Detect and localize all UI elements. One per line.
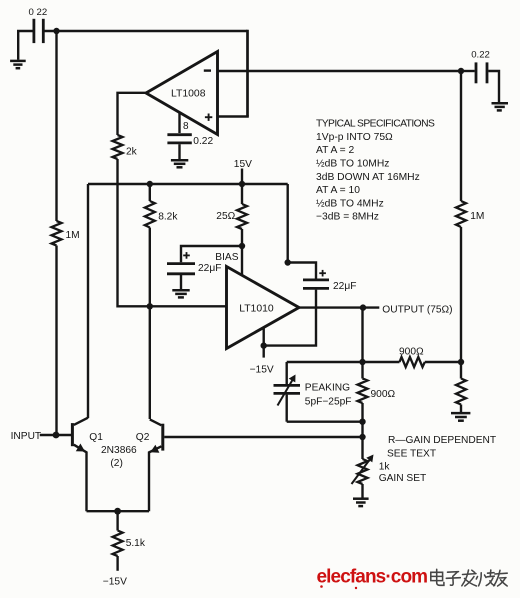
node junction dot box top — [359, 359, 365, 365]
svg-text:0.22: 0.22 — [193, 136, 213, 147]
svg-text:900Ω: 900Ω — [399, 346, 424, 357]
svg-text:5pF−25pF: 5pF−25pF — [305, 396, 352, 407]
ground G2 — [492, 103, 509, 110]
svg-text:8.2k: 8.2k — [158, 211, 178, 222]
node junction dot Q2 base wire — [359, 434, 365, 440]
watermark chinese çµå­åç§å — [431, 569, 507, 586]
R-GAIN note — [387, 435, 496, 460]
capacitor C6 peaking 5pF-25pF variable — [274, 375, 352, 408]
peaking box top wire — [287, 361, 363, 363]
buffer U2 LT1010 — [227, 267, 300, 349]
wire top feedback: node A to +input loop — [45, 30, 248, 32]
svg-text:R—GAIN DEPENDENT: R—GAIN DEPENDENT — [388, 435, 496, 446]
resistor R 2k — [113, 135, 138, 159]
wire right rail upper — [460, 71, 462, 201]
transistor Q1 2N3866 — [72, 418, 103, 512]
resistor R gain-dependent right — [456, 379, 466, 405]
svg-text:−15V: −15V — [250, 364, 274, 375]
svg-text:BIAS: BIAS — [215, 252, 238, 263]
ground G4 — [171, 160, 188, 167]
node junction dot emitters — [114, 508, 121, 515]
svg-text:−15V: −15V — [103, 576, 127, 587]
resistor R 900 horizontal — [363, 346, 462, 367]
resistor 1M right — [456, 201, 484, 227]
wire 15V rail — [88, 183, 288, 185]
svg-text:0 22: 0 22 — [29, 7, 48, 18]
capacitor C3 0.22 comp — [167, 135, 213, 160]
node junction dot input — [53, 432, 60, 439]
ground G1 — [10, 61, 26, 68]
wire C5 bottom to V- node — [264, 290, 316, 346]
node junction dot U2 input node — [147, 303, 153, 309]
wire Q2 base to gain node — [164, 436, 362, 438]
svg-text:22μF: 22μF — [333, 281, 356, 292]
svg-text:25Ω: 25Ω — [216, 211, 235, 222]
svg-text:1M: 1M — [66, 230, 80, 241]
wire output rail mid — [361, 403, 363, 459]
watermark elecfans.com — [317, 567, 428, 590]
resistor R 8.2k — [145, 184, 179, 228]
svg-text:3dB DOWN AT 16MHz: 3dB DOWN AT 16MHz — [316, 172, 420, 183]
svg-text:LT1010: LT1010 — [239, 304, 274, 315]
resistor 1M left — [52, 221, 80, 246]
wire rail right corner down to U2 V+ — [287, 184, 289, 263]
wire feedback vertical — [246, 30, 249, 117]
svg-text:22μF: 22μF — [198, 263, 221, 274]
svg-text:½dB TO 10MHz: ½dB TO 10MHz — [316, 159, 389, 170]
svg-text:½dB TO 4MHz: ½dB TO 4MHz — [316, 198, 384, 209]
supply 15V label and stub — [234, 159, 252, 184]
INPUT label and wire — [11, 431, 72, 442]
node junction dot box bottom — [359, 419, 365, 425]
spec text block — [316, 119, 435, 223]
svg-text:Q2: Q2 — [136, 432, 150, 443]
svg-text:AT A = 2: AT A = 2 — [316, 145, 355, 156]
wire 2k down to U2 input — [118, 159, 228, 306]
svg-text:0.22: 0.22 — [471, 49, 490, 60]
svg-text:AT A = 10: AT A = 10 — [316, 185, 360, 196]
node junction dot right rail — [458, 359, 464, 365]
ground G5 — [172, 290, 189, 297]
wire Q1 collector vertical — [87, 184, 89, 418]
wire U2 output — [299, 306, 379, 308]
svg-text:2N3866: 2N3866 — [101, 445, 137, 456]
svg-text:(2): (2) — [110, 458, 122, 469]
node junction dot V- — [261, 342, 267, 348]
wire + input — [217, 115, 249, 117]
wire output rail down — [361, 308, 363, 379]
svg-text:TYPICAL SPECIFICATIONS: TYPICAL SPECIFICATIONS — [316, 119, 435, 130]
node junction dot 8.2k top — [147, 181, 153, 187]
peaking box bottom wire — [287, 421, 363, 423]
wire left input rail upper — [55, 31, 57, 221]
op-amp U1 LT1008 — [146, 52, 218, 135]
wire C1 left to ground — [18, 31, 32, 60]
capacitor C2 0.22 top-right — [461, 49, 499, 102]
svg-text:900Ω: 900Ω — [371, 389, 396, 400]
wire left input rail lower — [55, 246, 57, 436]
wire V- stub — [263, 328, 265, 358]
capacitor C5 22uF output — [303, 270, 356, 292]
svg-text:2k: 2k — [126, 147, 138, 158]
wire to ground G3 — [460, 405, 462, 413]
svg-text:LT1008: LT1008 — [171, 89, 206, 100]
wire BIAS to C4 — [181, 246, 242, 262]
wire emitter rail — [87, 510, 150, 512]
resistor R 5.1k — [113, 511, 146, 571]
node junction dot U2 V+ — [285, 259, 291, 265]
svg-text:elecfans·com: elecfans·com — [317, 567, 428, 588]
svg-text:15V: 15V — [234, 159, 252, 170]
node A junction dot — [53, 28, 59, 34]
wire 8.2k bottom / Q2 collector chain — [149, 228, 151, 420]
ground G3 — [451, 413, 470, 421]
svg-text:Q1: Q1 — [89, 432, 103, 443]
svg-text:INPUT: INPUT — [11, 431, 42, 442]
svg-text:1Vp-p INTO 75Ω: 1Vp-p INTO 75Ω — [316, 132, 393, 143]
node junction dot output — [360, 304, 366, 310]
node BIAS junction dot — [239, 243, 245, 249]
wire 1k to ground — [361, 484, 363, 498]
labels 2N3866 (2) — [101, 445, 137, 469]
svg-text:1M: 1M — [470, 211, 484, 222]
capacitor C4 22uF — [167, 252, 221, 289]
wire U1 output to 2k — [118, 93, 147, 135]
svg-text:5.1k: 5.1k — [126, 538, 146, 549]
svg-text:OUTPUT (75Ω): OUTPUT (75Ω) — [382, 305, 452, 316]
potentiometer R 1k GAIN SET — [352, 455, 427, 485]
svg-text:GAIN SET: GAIN SET — [379, 473, 427, 484]
node junction dot 25ohm top — [239, 181, 245, 187]
svg-text:PEAKING: PEAKING — [305, 383, 350, 394]
pin 8 stub U1 — [180, 113, 190, 134]
peaking box left wire upper — [286, 362, 288, 384]
resistor R 900 vertical — [358, 379, 396, 404]
wire V+ node to C5 — [288, 263, 316, 279]
wire - input long (to right 0.22 node) — [218, 70, 462, 72]
transistor Q2 2N3866 — [136, 419, 163, 511]
svg-text:1k: 1k — [379, 461, 391, 472]
svg-text:8: 8 — [183, 121, 189, 132]
node B junction dot top-right — [458, 68, 464, 74]
ground G6 — [353, 499, 369, 506]
svg-text:SEE TEXT: SEE TEXT — [387, 449, 436, 460]
svg-text:−3dB = 8MHz: −3dB = 8MHz — [316, 212, 379, 223]
capacitor C1 0.22 top-left — [29, 7, 48, 43]
wire right rail mid — [460, 227, 462, 379]
peaking box left wire lower — [286, 395, 288, 422]
resistor R 25ohm — [216, 184, 247, 276]
